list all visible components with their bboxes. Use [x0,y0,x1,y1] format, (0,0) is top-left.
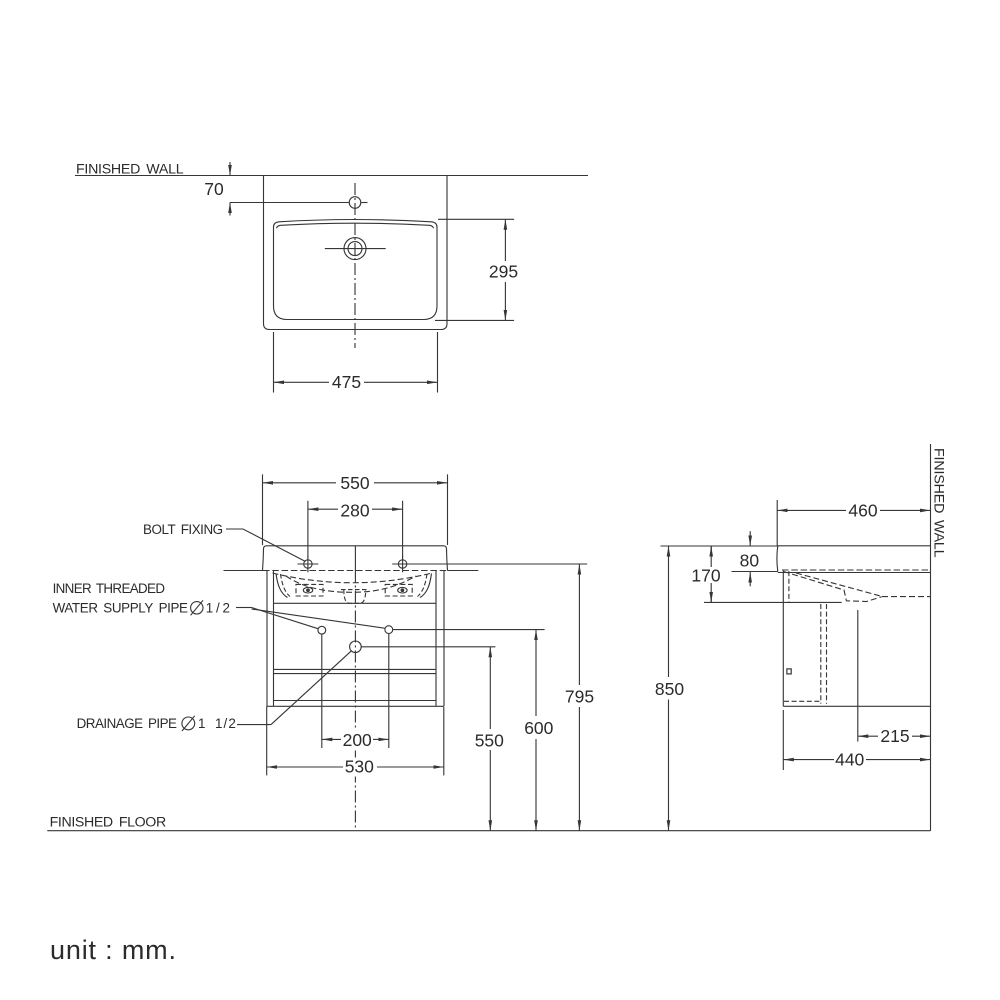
svg-text:FINISHED WALL: FINISHED WALL [76,162,184,178]
cabinet shelf lower line [274,673,437,675]
white mask for 200 text [341,730,373,749]
dimension 70 tick line upper [229,162,231,176]
dimension 530 right extension line [443,707,445,775]
cabinet bottom outer line [267,705,444,707]
drain level reference line to 550 dimension [361,646,495,648]
water supply pipe right circle [385,626,393,634]
dimension 440 line right segment [866,759,931,761]
reference line at rim bottom (for 80) [732,571,778,573]
fixing lug left dashed box [296,584,323,596]
cabinet outer left side [266,571,268,707]
dimension 475 left extension line [273,332,275,393]
svg-text:440: 440 [835,749,864,769]
fixing lug right dashed box [385,584,412,596]
fixing lug right dot [401,589,404,592]
deck hidden dashed line (side view) [782,569,931,571]
drainage leader horizontal [237,724,271,726]
dimension 600 vertical lower segment [535,739,537,831]
svg-text:850: 850 [655,679,684,699]
dimension 550 vertical lower segment [489,750,491,831]
basin inner bowl outline (top view) [274,220,438,320]
dimension 170 arrow up [710,546,712,556]
drain inner circle (top view) [348,242,362,256]
dimension 850 vertical lower segment [668,700,670,831]
dimension 215 line right segment [912,735,931,737]
svg-text:DRAINAGE PIPE: DRAINAGE PIPE [77,716,178,731]
svg-text:280: 280 [340,500,369,520]
basin inner left dashed curve (front view) [281,574,291,597]
dimension 600 vertical upper segment [535,630,537,716]
reference line at basin top level (for 850/170/80) [661,545,778,547]
basin front silhouette [263,546,448,571]
finished floor line [47,830,930,832]
basin inner left solid curve (front view) [276,574,288,598]
centre line vertical (front view) [354,571,356,831]
diameter symbol 1 1/2 [182,716,195,731]
dimension 215 extension line [857,610,859,742]
svg-text:215: 215 [880,726,909,746]
svg-text:unit : mm.: unit : mm. [50,935,176,965]
water supply leader to left pipe [252,608,319,629]
svg-text:INNER THREADED: INNER THREADED [53,581,166,596]
dimension 550 line left segment [263,482,337,484]
water supply leader stub [236,607,252,609]
svg-text:475: 475 [332,372,361,392]
drain pipe dashed right (side view) [826,604,828,704]
dimension 280 left extension line [307,501,309,557]
supply pipe right drop line [388,634,390,749]
dimension 795 vertical upper segment [578,564,580,685]
dimension 80 upper segment [749,531,751,546]
basin outer outline (top view) [264,176,448,330]
dimension 850 vertical upper segment [668,546,670,677]
deck hidden dashed line across basin [263,570,448,572]
svg-text:170: 170 [691,565,720,585]
dimension 215 line left segment [858,735,878,737]
svg-text:795: 795 [565,687,594,707]
fixing lug right ellipse [398,587,407,593]
drain crosshair horizontal (top view) [325,248,386,250]
cabinet bottom hidden dashed (side view) [784,700,820,702]
basin side profile front edge [776,546,779,572]
basin inner right dashed curve (front view) [418,574,428,597]
dimension 460 line left segment [777,509,846,511]
svg-text:1/2: 1/2 [206,600,231,615]
bolt left crosshair [298,556,319,573]
drain pipe dashed left (side view) [820,604,822,704]
svg-text:550: 550 [475,730,504,750]
hidden bowl dashed profile b (side view) [796,573,880,596]
dimension 440 extension line [782,710,784,770]
basin inner rim second curve (top view) [277,223,434,228]
basin side profile top [778,545,931,547]
water supply pipe left circle [318,626,326,634]
svg-text:200: 200 [343,730,372,750]
svg-text:FINISHED WALL: FINISHED WALL [931,448,947,558]
hidden bowl outer dashed curve (front view) [273,573,433,583]
svg-text:600: 600 [524,718,553,738]
finished wall line (top view) [75,175,588,177]
deck line right solid segment [448,570,479,572]
reference line from bolt to 795 dimension [413,563,587,565]
svg-text:70: 70 [204,179,224,199]
white mask for 530 text [344,758,376,777]
dimension 280 line right segment [372,508,403,510]
centre line vertical (top view) [354,183,356,348]
dimension 550 right extension line [447,474,449,545]
dimension 200 line left segment [322,738,341,740]
supply pipe left drop line [321,634,323,748]
dimension 295 bottom extension line [435,319,514,321]
svg-text:80: 80 [740,551,760,571]
finished wall line (side view) [930,444,932,831]
dimension 475 line right segment [364,381,438,383]
hidden bowl dashed profile a (side view) [784,572,882,602]
dimension 70 tick line lower [229,203,231,216]
hidden front flange dashed vertical (side view) [788,571,790,602]
deck hidden line left solid segment [224,570,264,572]
faucet hole reference line [230,202,349,204]
dimension 170 line [710,546,712,602]
dimension 475 right extension line [437,332,439,393]
centre line solid segment through rim (front view) [354,546,356,571]
cabinet inner right side [435,571,437,707]
cabinet front edge (side view) [782,571,784,707]
basin inner right solid curve (front view) [420,574,432,598]
svg-text:BOLT FIXING: BOLT FIXING [143,522,224,537]
dimension 530 left extension line [266,706,268,775]
hidden outlet dashed line to wall (side view) [882,596,931,598]
dimension 295 line upper segment [504,219,506,261]
drain outer circle (top view) [344,238,366,260]
dimension 795 vertical lower segment [578,707,580,831]
svg-text:530: 530 [345,757,374,777]
faucet hole crosshair stub [361,202,367,204]
svg-text:FINISHED FLOOR: FINISHED FLOOR [50,815,167,831]
door handle square [787,669,791,674]
dimension 295 line lower segment [504,282,506,320]
white mask for 80 text [738,551,760,568]
dimension 295 top extension line [438,218,514,220]
cabinet inner left side [273,571,275,707]
fixing lug left dot [307,589,310,592]
cabinet outer right side [443,571,445,707]
bolt right crosshair [392,556,413,573]
dimension 550 line right segment [374,482,448,484]
fixing lug left ellipse [303,587,312,593]
drain boss dashed outline (front view) [341,590,368,604]
dimension 530 line right segment [377,766,444,768]
svg-text:WATER SUPPLY PIPE: WATER SUPPLY PIPE [53,600,189,615]
cabinet bottom inner line [274,700,437,702]
reference line at supply level (for 170) [704,601,842,603]
drainage leader diagonal [271,651,351,725]
dimension 280 line left segment [308,508,338,510]
dimension 280 right extension line [402,501,404,557]
dimension 460 extension line [776,500,778,546]
bolt fixing leader line [226,529,306,562]
dimension 440 line left segment [783,759,834,761]
hidden bowl inner dashed curve (front view) [286,576,416,592]
diameter symbol 1/2 [191,600,203,615]
dimension 550 vertical upper segment [489,647,491,729]
bolt left circle [304,560,312,568]
cabinet bottom (side view) [783,705,930,707]
dimension 530 line left segment [267,766,343,768]
dimension 200 line right segment [373,738,389,740]
dimension 550 left extension line [262,474,264,545]
svg-text:550: 550 [340,473,369,493]
svg-text:1 1/2: 1 1/2 [198,716,236,731]
water supply leader to right pipe [252,609,386,628]
dimension 475 line left segment [274,381,330,383]
supply level reference line to 600 dimension [393,629,545,631]
bolt right circle [398,560,406,568]
white mask for 170 text [691,567,721,583]
drain circle (front view) [350,641,362,653]
svg-text:460: 460 [848,500,877,520]
faucet hole circle [349,197,361,209]
dimension 170 arrow down [710,592,712,602]
basin side profile bottom [778,572,931,574]
cabinet rail under bowl [274,602,437,604]
dimension 80 lower segment [749,572,751,586]
dimension 460 line right segment [880,509,931,511]
svg-text:295: 295 [489,262,518,282]
cabinet shelf upper line [274,668,437,670]
